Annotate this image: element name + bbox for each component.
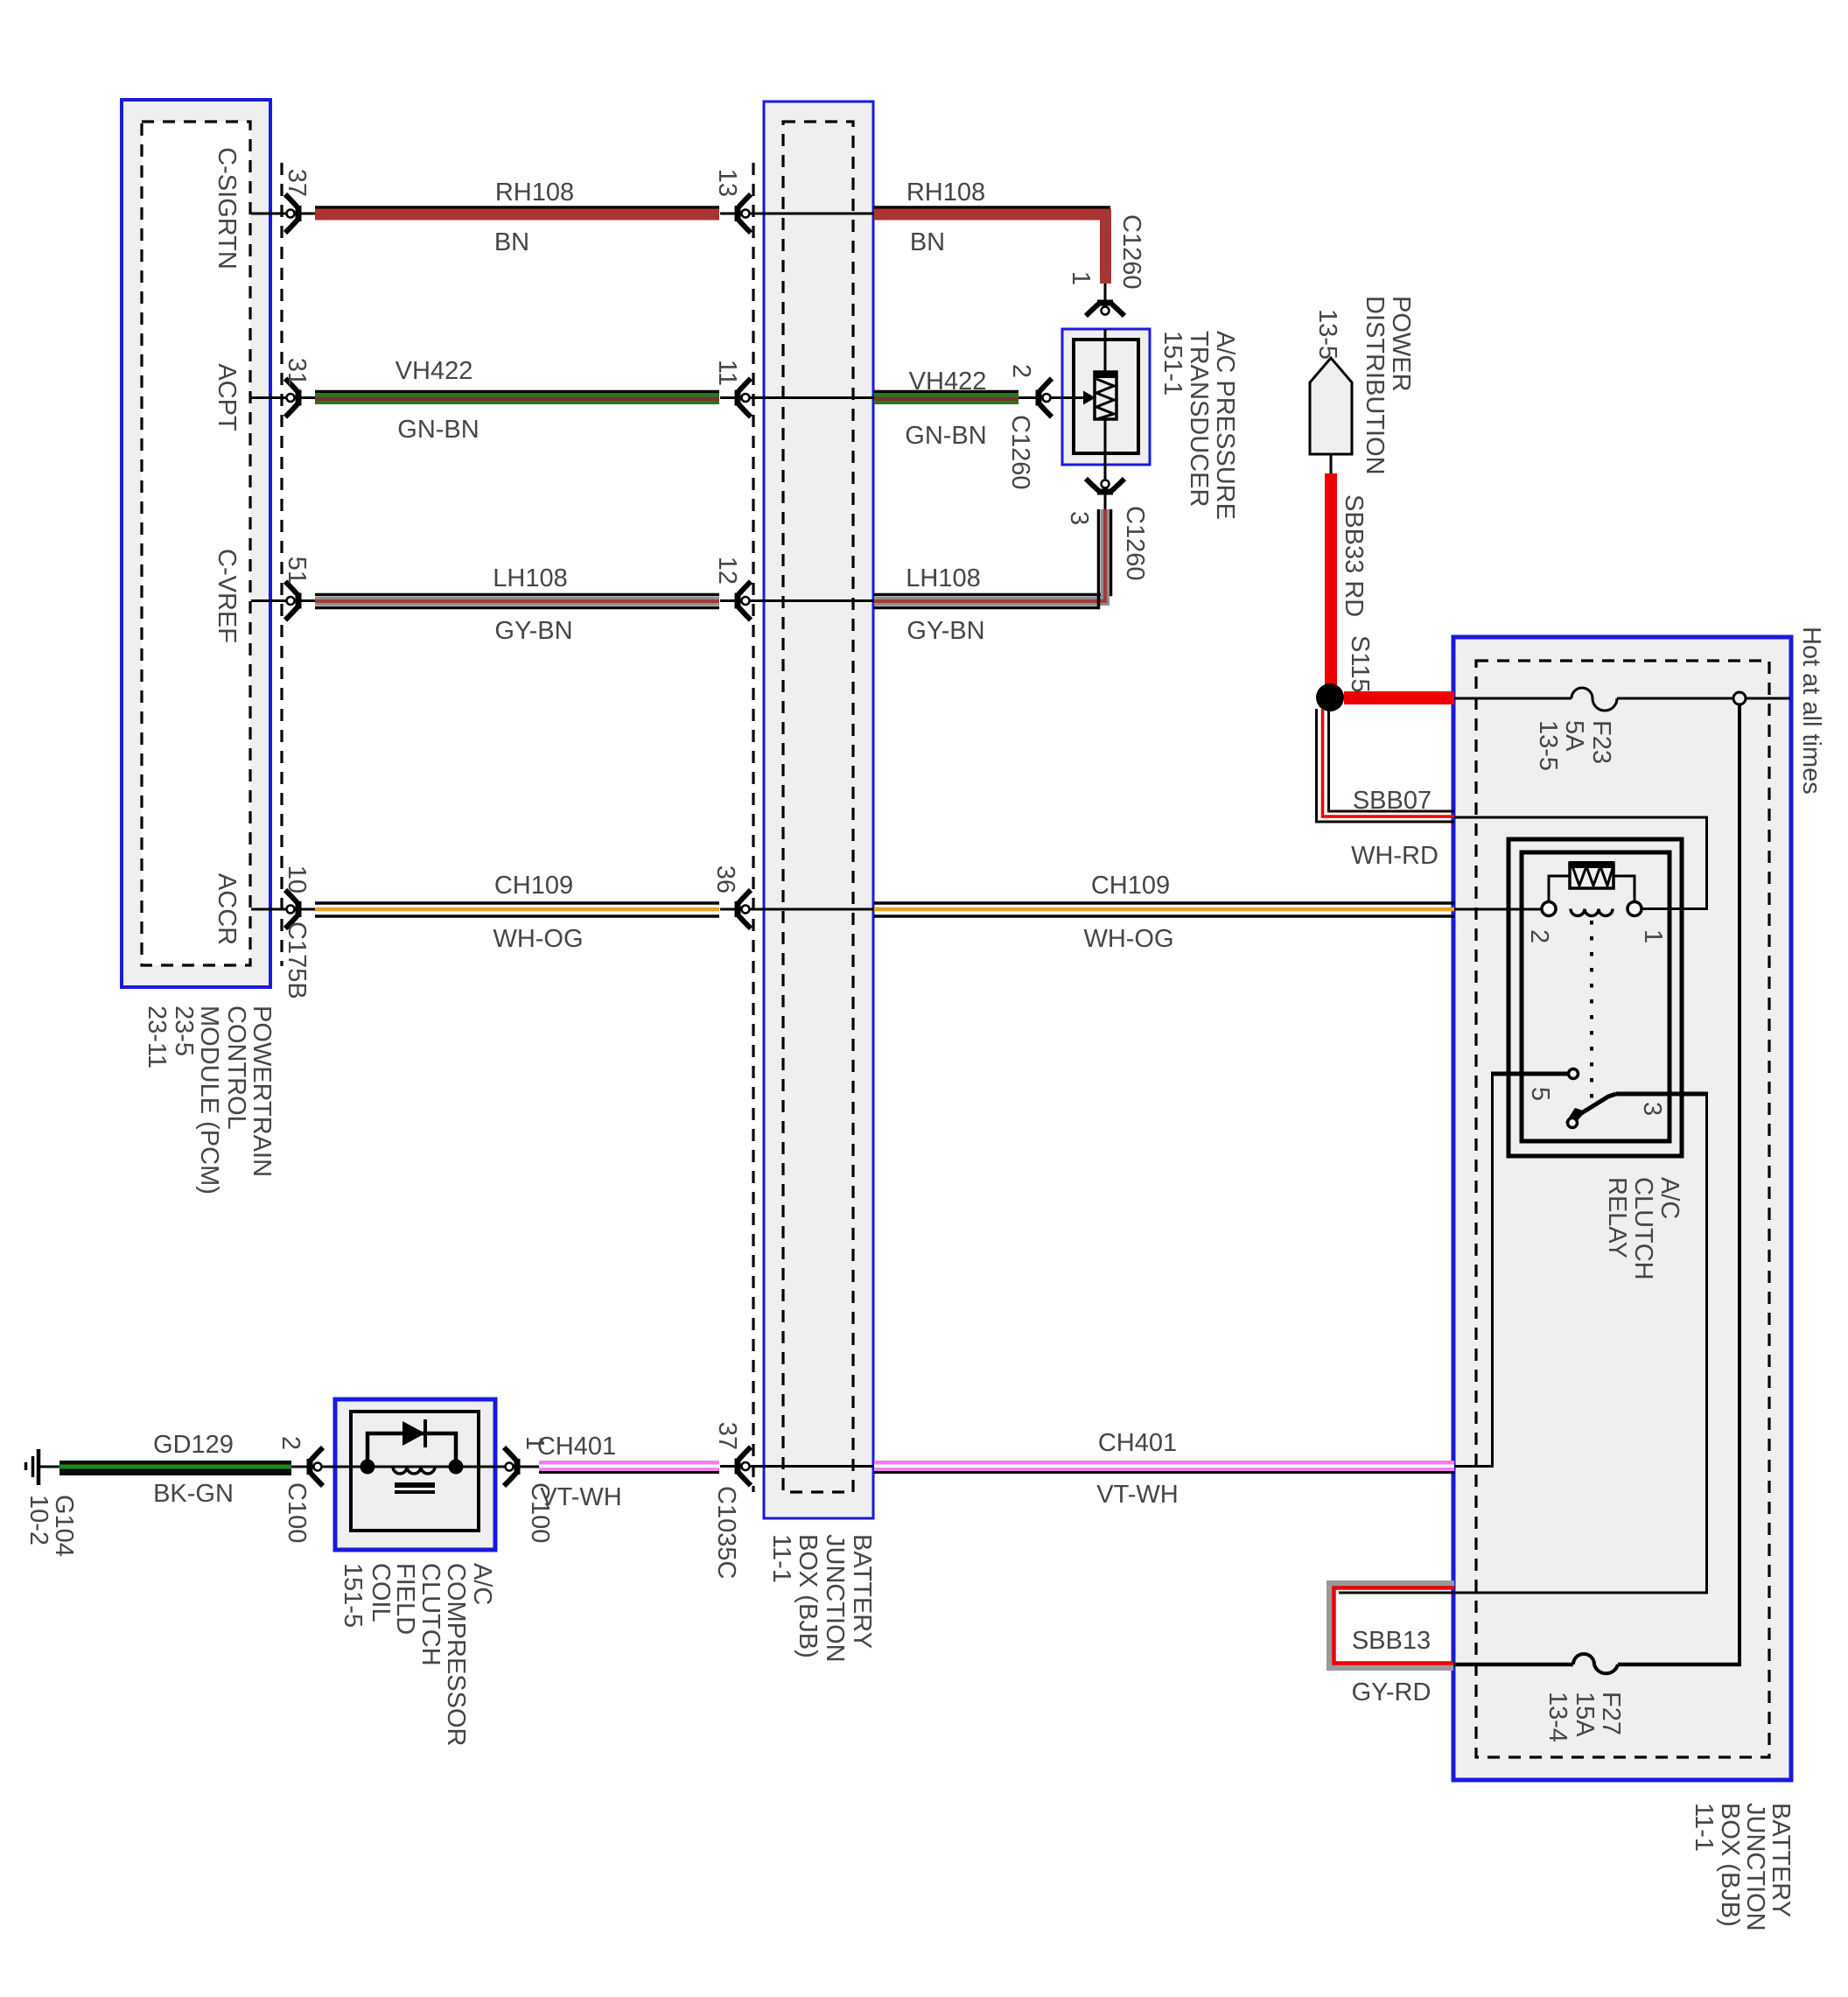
- svg-text:15A: 15A: [1571, 1692, 1599, 1737]
- svg-text:ACPT: ACPT: [213, 363, 241, 431]
- wire VH422 GN-BN left segment: PCM pin 31 to BJB pin 11: [251, 396, 315, 399]
- clutch plates: [395, 1482, 435, 1488]
- svg-text:1: 1: [521, 1436, 549, 1450]
- svg-text:GY-BN: GY-BN: [906, 617, 984, 645]
- A/C clutch relay outer rect: [1508, 839, 1682, 1156]
- svg-text:BN: BN: [494, 228, 529, 256]
- svg-text:CONTROL: CONTROL: [222, 1006, 250, 1130]
- svg-text:CH401: CH401: [1098, 1429, 1177, 1457]
- svg-text:C100: C100: [526, 1482, 554, 1543]
- svg-text:SBB07: SBB07: [1353, 787, 1431, 815]
- relay coil: [1571, 909, 1613, 916]
- wire SBB07 WH-RD: S115 to relay coil pin 1: [1317, 709, 1455, 822]
- svg-text:TRANSDUCER: TRANSDUCER: [1185, 331, 1213, 507]
- svg-text:S115: S115: [1346, 635, 1374, 693]
- svg-text:POWERTRAIN: POWERTRAIN: [248, 1006, 276, 1177]
- svg-text:JUNCTION: JUNCTION: [1741, 1803, 1769, 1931]
- svg-text:A/C: A/C: [1655, 1177, 1683, 1219]
- svg-text:RELAY: RELAY: [1603, 1177, 1631, 1258]
- svg-text:WH-RD: WH-RD: [1351, 842, 1438, 870]
- svg-text:13: 13: [713, 169, 741, 197]
- svg-text:3: 3: [1065, 511, 1093, 525]
- powertrain control module PCM box: [122, 100, 270, 987]
- wire VH422 GN-BN right segment: BJB to transducer pin 2: [874, 396, 1049, 399]
- svg-text:151-1: 151-1: [1158, 331, 1186, 396]
- wire LH108 GY-BN left segment: PCM pin 51 to BJB pin 12: [251, 599, 315, 602]
- svg-text:C1035C: C1035C: [712, 1486, 740, 1579]
- coil C100 pin 1 connector: [504, 1447, 517, 1486]
- PCM pin 10 connector: [285, 890, 298, 928]
- svg-text:1: 1: [1639, 929, 1667, 943]
- svg-text:A/C PRESSURE: A/C PRESSURE: [1211, 331, 1239, 520]
- BJB right inner dashed rect: [1476, 661, 1769, 1757]
- svg-text:COIL: COIL: [367, 1563, 395, 1622]
- svg-text:5: 5: [1526, 1087, 1554, 1101]
- PCM pin 37 connector: [285, 194, 298, 233]
- svg-text:WH-OG: WH-OG: [493, 925, 583, 953]
- svg-text:CLUTCH: CLUTCH: [1629, 1177, 1657, 1280]
- svg-text:2: 2: [1525, 929, 1553, 943]
- PCM pin 31 connector: [285, 379, 298, 417]
- PCM pin 51 connector: [285, 582, 298, 620]
- transducer wire arrowhead: [1083, 391, 1095, 405]
- svg-text:2: 2: [276, 1436, 304, 1450]
- svg-text:LH108: LH108: [906, 564, 980, 592]
- svg-text:RH108: RH108: [906, 179, 985, 207]
- coil C100 pin 2 connector: [310, 1447, 323, 1486]
- transducer C1260 pin 1 connector: [1086, 303, 1124, 316]
- svg-text:2: 2: [1007, 364, 1035, 378]
- svg-text:POWER: POWER: [1387, 296, 1415, 392]
- svg-text:BK-GN: BK-GN: [153, 1480, 234, 1508]
- svg-text:GN-BN: GN-BN: [905, 422, 986, 450]
- fuse F27 15A line: [1453, 1663, 1573, 1667]
- BJB pin 12 connector: [738, 582, 751, 620]
- BJB middle inner dashed rect: [783, 122, 853, 1492]
- svg-text:G104: G104: [50, 1495, 78, 1557]
- svg-text:VT-WH: VT-WH: [1096, 1481, 1178, 1509]
- svg-text:VH422: VH422: [909, 368, 987, 396]
- PCM connector dashed line C175B: [280, 163, 283, 966]
- splice S115: [1316, 683, 1344, 711]
- svg-text:C1260: C1260: [1117, 214, 1145, 289]
- svg-text:C-VREF: C-VREF: [213, 549, 241, 643]
- relay coil terminal pin 1: [1627, 902, 1641, 916]
- ground G104: [37, 1449, 41, 1485]
- fuse F23 5A line: hot at all times: [1454, 697, 1571, 700]
- relay plunger dotted line: [1590, 921, 1593, 1101]
- relay resistor parallel links: [1549, 876, 1570, 901]
- svg-text:12: 12: [713, 557, 741, 585]
- svg-text:Hot at all times: Hot at all times: [1797, 627, 1825, 795]
- svg-text:BATTERY: BATTERY: [848, 1534, 876, 1649]
- svg-text:23-11: 23-11: [143, 1006, 171, 1069]
- wire SBB33 RD: power distribution to S115: [1325, 473, 1337, 697]
- wire RH108 BN left segment: PCM pin 37 to BJB pin 13: [251, 213, 315, 215]
- svg-text:CH109: CH109: [1091, 872, 1170, 900]
- svg-text:ACCR: ACCR: [213, 873, 241, 945]
- BJB pin 36 connector: [738, 890, 751, 928]
- wire: SBB13 top leg to relay pin 3: [1339, 1094, 1707, 1593]
- BJB pin 37 connector C1035C: [738, 1447, 751, 1486]
- svg-text:JUNCTION: JUNCTION: [821, 1534, 849, 1663]
- svg-text:CLUTCH: CLUTCH: [416, 1563, 444, 1666]
- A/C compressor clutch field coil internals: [335, 1466, 360, 1468]
- wire: node down to fuse F27: [1738, 704, 1741, 1663]
- clutch coil diode branch: [367, 1433, 456, 1460]
- svg-text:151-5: 151-5: [339, 1563, 367, 1628]
- svg-text:13-5: 13-5: [1313, 309, 1341, 360]
- svg-text:BOX (BJB): BOX (BJB): [1716, 1803, 1744, 1927]
- svg-text:13-5: 13-5: [1534, 720, 1562, 771]
- relay resistor: [1570, 861, 1613, 868]
- svg-text:1: 1: [1067, 271, 1095, 285]
- svg-text:11: 11: [713, 360, 741, 386]
- wire: relay pin 5 to CH401: [1454, 1075, 1493, 1467]
- svg-text:36: 36: [711, 865, 739, 893]
- svg-text:10-2: 10-2: [24, 1495, 52, 1545]
- svg-text:C-SIGRTN: C-SIGRTN: [213, 147, 241, 270]
- svg-text:LH108: LH108: [493, 564, 567, 592]
- clutch coil windings: [393, 1467, 435, 1474]
- svg-text:VH422: VH422: [395, 357, 473, 385]
- svg-text:37: 37: [713, 1422, 741, 1450]
- relay switch arm pin 3: [1565, 1108, 1585, 1124]
- svg-text:13-4: 13-4: [1543, 1692, 1571, 1742]
- svg-text:SBB13: SBB13: [1352, 1627, 1431, 1655]
- svg-text:WH-OG: WH-OG: [1083, 925, 1173, 953]
- svg-text:MODULE (PCM): MODULE (PCM): [195, 1006, 223, 1195]
- svg-text:10: 10: [283, 865, 311, 893]
- wire CH401 VT-WH right segment: BJB to relay pin 5: [874, 1461, 1454, 1471]
- svg-text:A/C: A/C: [468, 1563, 496, 1605]
- svg-text:31: 31: [283, 358, 311, 386]
- transducer C1260 pin 3 connector: [1086, 479, 1124, 492]
- BJB pin 11 connector: [738, 379, 751, 417]
- wire LH108 GY-BN right segment: transducer pin 3 down and to BJB: [1104, 453, 1107, 509]
- BJB middle connector dashed line: [752, 163, 754, 1492]
- svg-text:5A: 5A: [1560, 720, 1588, 752]
- transducer C1260 pin 2 connector: [1039, 379, 1052, 417]
- svg-text:BOX (BJB): BOX (BJB): [794, 1534, 822, 1658]
- wire CH109 WH-OG right segment: BJB to relay coil pin 2: [874, 901, 1454, 905]
- relay switch pin 5 line: [1491, 1072, 1567, 1076]
- relay coil terminal pin 2: [1542, 902, 1556, 916]
- clutch coil junction dots: [360, 1460, 375, 1475]
- svg-text:RH108: RH108: [495, 179, 574, 207]
- svg-text:3: 3: [1638, 1102, 1666, 1116]
- svg-text:BATTERY: BATTERY: [1767, 1803, 1795, 1917]
- svg-text:C1260: C1260: [1121, 506, 1149, 580]
- A/C pressure transducer box: [1062, 329, 1150, 465]
- BJB pin 13 connector: [738, 194, 751, 233]
- svg-text:DISTRIBUTION: DISTRIBUTION: [1361, 296, 1389, 475]
- wire SBB13 GY-RD U-loop: [1330, 1584, 1455, 1668]
- battery junction box BJB middle box: [764, 102, 873, 1518]
- svg-text:GD129: GD129: [153, 1431, 234, 1459]
- svg-text:SBB33 RD: SBB33 RD: [1340, 494, 1368, 617]
- wire RH108 BN right segment: BJB to transducer pin 1: [874, 206, 1110, 209]
- svg-text:C100: C100: [283, 1482, 311, 1543]
- svg-text:C1260: C1260: [1006, 415, 1034, 489]
- svg-text:37: 37: [283, 169, 311, 197]
- svg-text:11-1: 11-1: [1690, 1803, 1718, 1852]
- svg-text:C175B: C175B: [283, 921, 311, 999]
- svg-text:11-1: 11-1: [767, 1534, 795, 1583]
- node on F23 line: [1733, 692, 1746, 704]
- svg-text:GY-RD: GY-RD: [1352, 1678, 1431, 1706]
- PCM inner dashed rect: [142, 122, 250, 965]
- battery junction box BJB right box: [1453, 637, 1791, 1780]
- svg-text:CH109: CH109: [494, 872, 573, 900]
- A/C pressure transducer internals: [1104, 329, 1107, 372]
- wire CH109 WH-OG left segment: PCM pin 10 to BJB pin 36: [251, 908, 315, 911]
- A/C compressor clutch field coil box: [335, 1399, 495, 1550]
- svg-text:GY-BN: GY-BN: [494, 617, 572, 645]
- svg-text:F27: F27: [1597, 1692, 1625, 1735]
- power distribution arrow symbol: [1310, 358, 1352, 454]
- wire SBB33 RD: S115 to BJB: [1344, 691, 1454, 704]
- svg-text:F23: F23: [1587, 720, 1615, 764]
- svg-text:51: 51: [283, 557, 311, 585]
- svg-text:23-5: 23-5: [170, 1006, 198, 1056]
- wire CH401 VT-WH left segment: coil pin 1 to BJB pin 37: [495, 1466, 539, 1468]
- svg-text:GN-BN: GN-BN: [397, 416, 479, 444]
- svg-text:COMPRESSOR: COMPRESSOR: [442, 1563, 470, 1746]
- svg-text:BN: BN: [910, 228, 945, 256]
- wire GD129 BK-GN: ground G104 to coil pin 2: [40, 1466, 59, 1468]
